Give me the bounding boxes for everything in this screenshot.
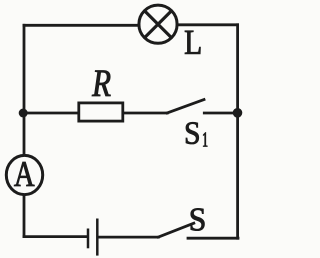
resistor R box — [79, 103, 123, 121]
wire middle branch left (node to resistor) — [23, 112, 78, 115]
wire battery to switch S — [99, 236, 159, 239]
battery positive terminal (long bar) — [96, 219, 99, 256]
wire left vertical lower (ammeter to corner) — [23, 196, 26, 237]
label S1 subscript 1 — [203, 133, 207, 147]
label L — [185, 31, 200, 54]
label S (bottom switch) — [191, 208, 205, 230]
label R — [92, 71, 111, 97]
wire resistor to switch S1 — [124, 112, 168, 115]
switch S1 blade — [167, 100, 204, 114]
switch S fixed contact — [188, 237, 238, 240]
ammeter letter A — [14, 162, 34, 186]
label S1 letter S — [186, 122, 199, 144]
node junction right — [233, 108, 243, 118]
wire top-left (corner to lamp) — [24, 24, 139, 27]
wire left vertical upper (corner to node) — [23, 25, 26, 113]
wire left vertical (node to ammeter) — [23, 113, 26, 155]
node junction left — [19, 109, 28, 118]
ammeter A circle — [6, 155, 42, 194]
switch S blade — [158, 223, 193, 237]
battery negative terminal (short bar) — [87, 229, 90, 249]
switch S1 fixed contact — [204, 112, 234, 115]
lamp L (circle with X) — [139, 5, 177, 43]
wire right vertical — [236, 25, 239, 238]
wire bottom-left (corner to battery) — [24, 235, 86, 238]
wire top-right (lamp to corner) — [177, 23, 238, 26]
